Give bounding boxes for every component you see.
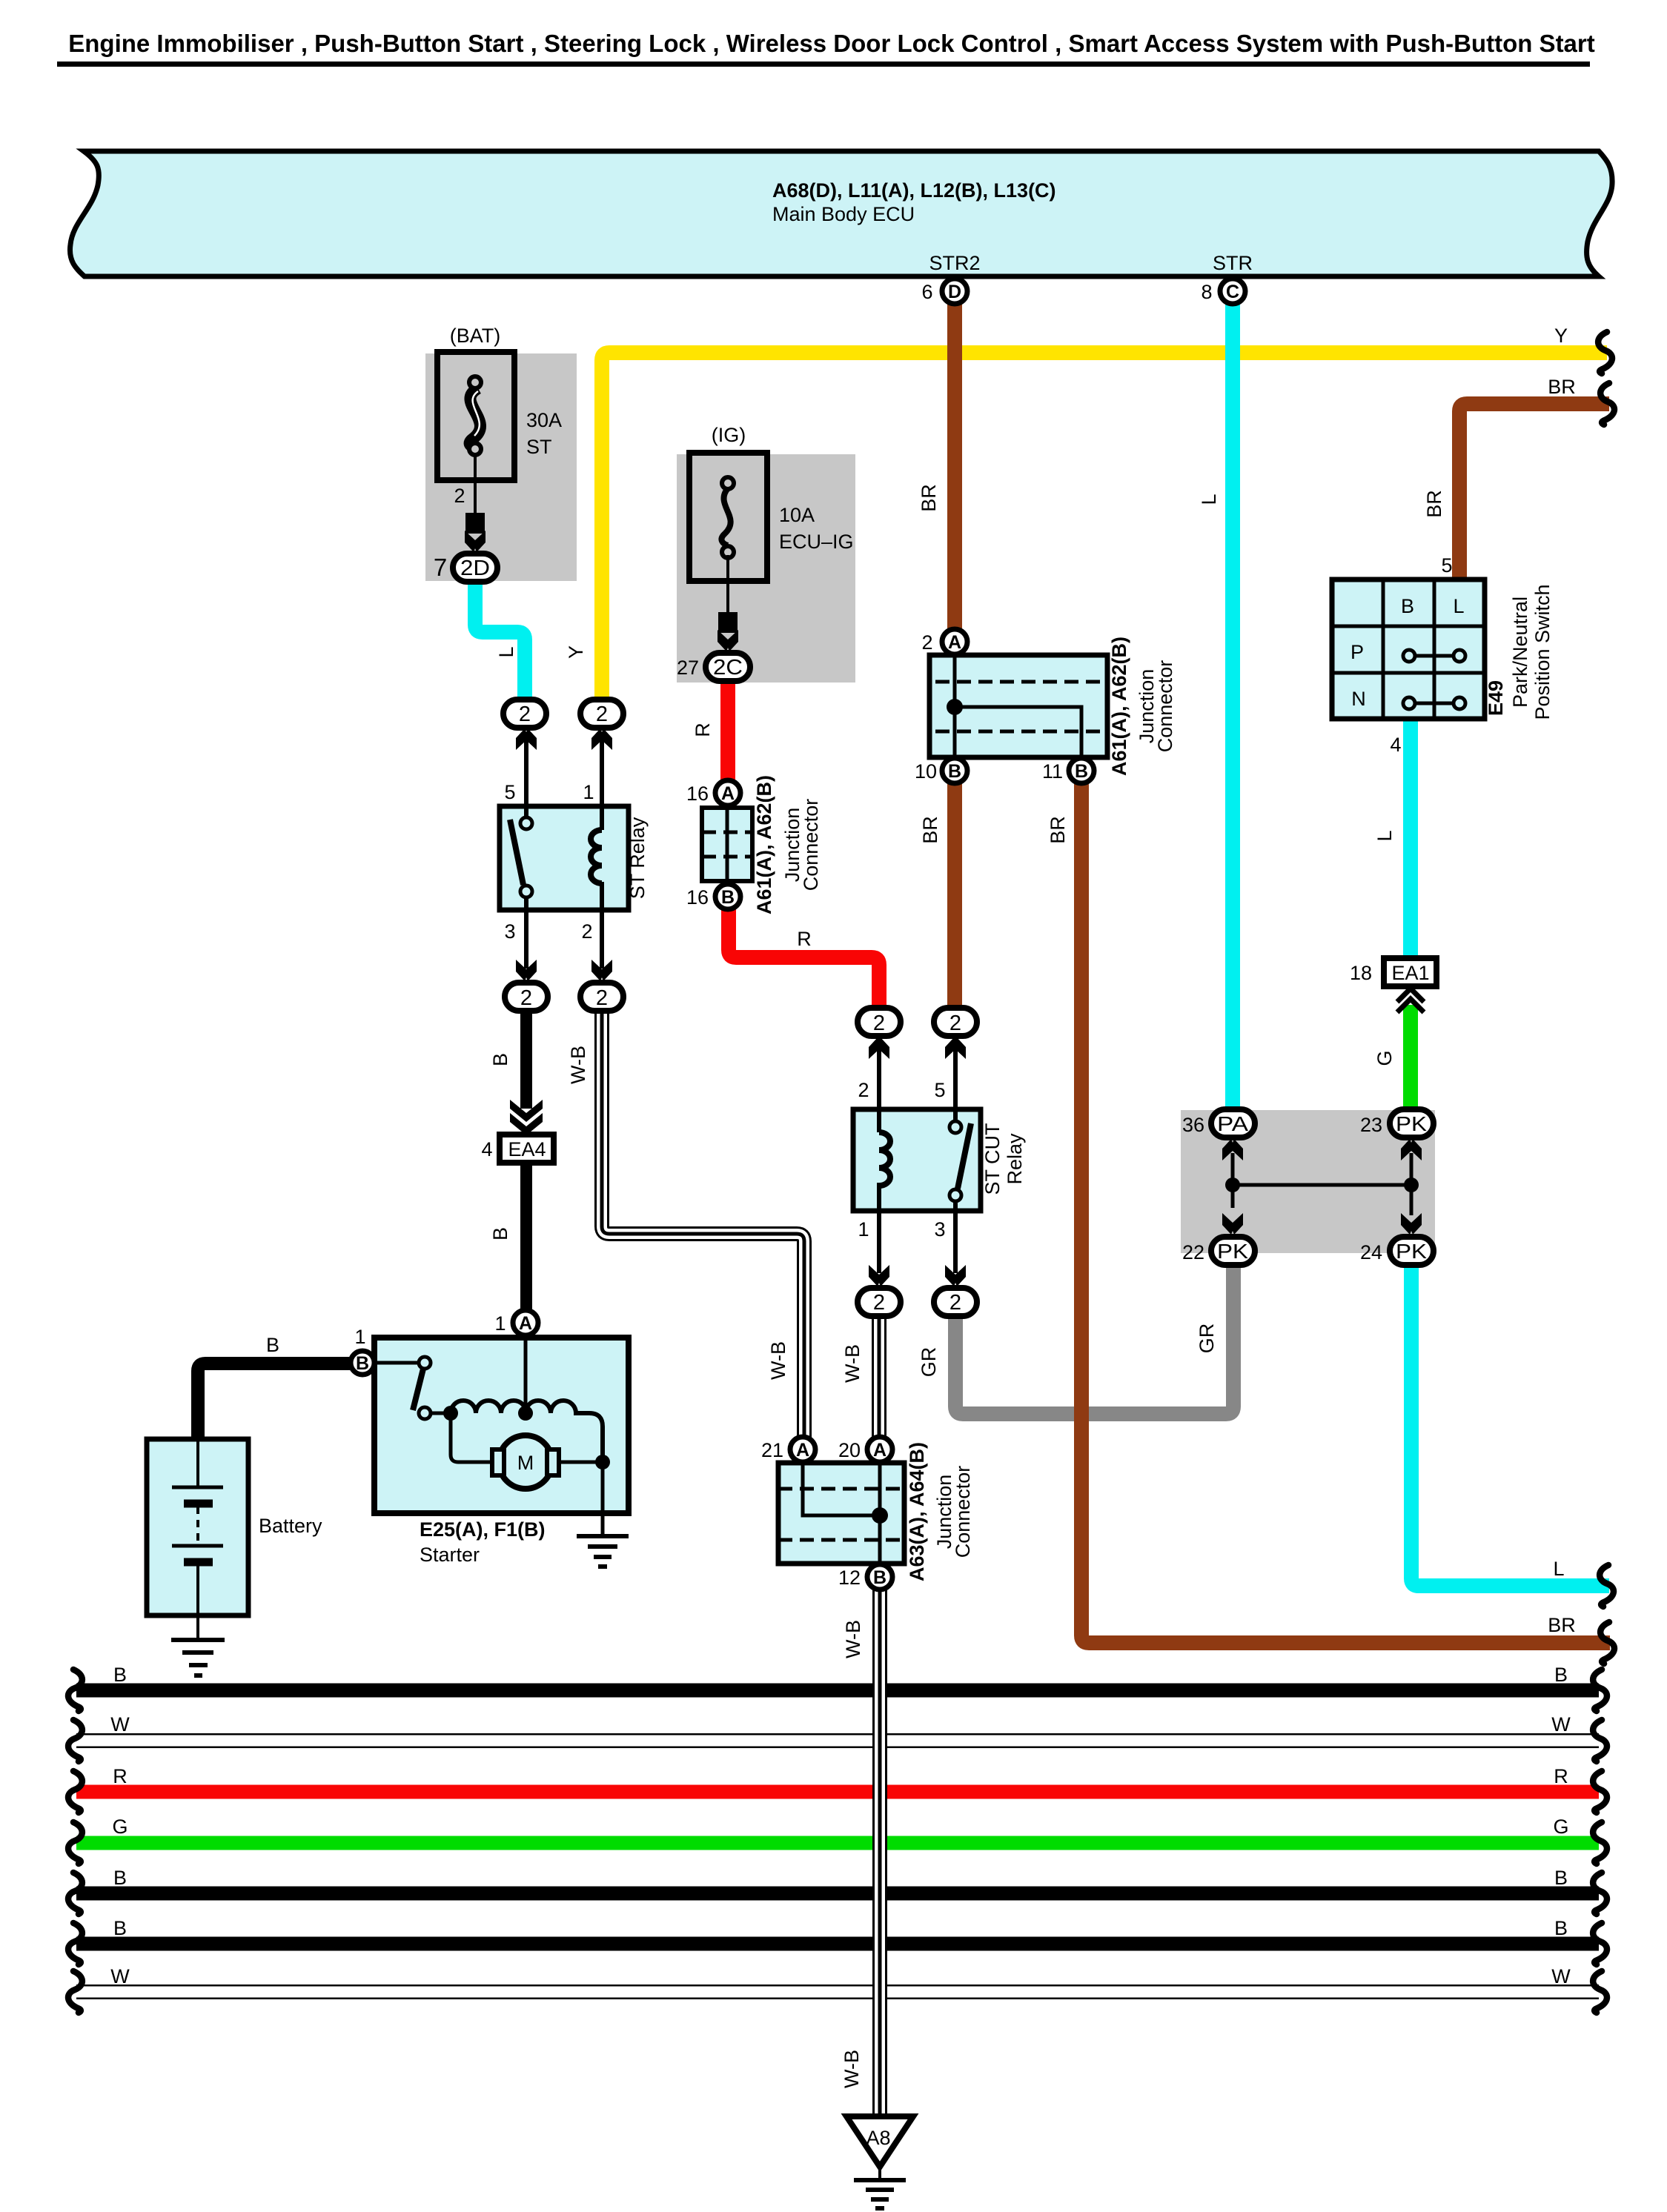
svg-text:PK: PK — [1396, 1240, 1427, 1263]
svg-text:B: B — [489, 1053, 511, 1066]
svg-text:21: 21 — [761, 1439, 783, 1461]
ground splice EA4 — [481, 1100, 554, 1163]
svg-text:BR: BR — [1548, 376, 1576, 398]
svg-text:Starter: Starter — [420, 1544, 480, 1566]
svg-text:W-B: W-B — [841, 1344, 864, 1383]
svg-text:W-B: W-B — [767, 1341, 789, 1380]
svg-text:GR: GR — [918, 1347, 940, 1378]
svg-text:2: 2 — [581, 920, 592, 943]
pin 6 D on ECU — [921, 279, 967, 304]
svg-text:B: B — [113, 1664, 127, 1686]
svg-text:D: D — [948, 282, 961, 302]
wire Y yellow from ECU area to right edge and down to ST relay — [565, 325, 1607, 700]
svg-text:11: 11 — [1042, 760, 1063, 783]
svg-text:4: 4 — [1390, 734, 1401, 756]
svg-text:P: P — [1350, 641, 1364, 663]
pin 12 B junction A63 — [838, 1564, 892, 1590]
pin 1 A on starter — [494, 1310, 538, 1335]
svg-text:W-B: W-B — [841, 2050, 863, 2088]
fuse block shading (IG) — [677, 454, 855, 682]
svg-text:1: 1 — [494, 1312, 506, 1335]
svg-text:5: 5 — [1441, 554, 1452, 577]
wire BR brown from ECU pin D to junction A — [918, 302, 955, 630]
svg-text:E25(A), F1(B): E25(A), F1(B) — [420, 1518, 546, 1541]
connector 2 (ST relay pin 3 bottom) — [505, 983, 548, 1011]
svg-text:PA: PA — [1217, 1112, 1248, 1135]
connector 24 PK — [1360, 1237, 1434, 1265]
pin 20 A junction A63 — [838, 1437, 892, 1462]
pin 1 B on starter — [351, 1326, 374, 1375]
fuse block shading (BAT) — [425, 353, 577, 581]
svg-text:18: 18 — [1350, 962, 1372, 984]
svg-text:2: 2 — [950, 1012, 961, 1035]
svg-text:1: 1 — [858, 1218, 869, 1240]
svg-text:BR: BR — [1548, 1614, 1576, 1636]
junction connector A61(A) A62(B) large — [929, 637, 1176, 776]
svg-text:PK: PK — [1217, 1240, 1248, 1263]
svg-text:EA1: EA1 — [1391, 962, 1429, 984]
wire bus G — [76, 1816, 1599, 1843]
svg-text:2: 2 — [596, 703, 608, 726]
svg-text:B: B — [266, 1334, 279, 1356]
svg-text:A61(A), A62(B): A61(A), A62(B) — [1108, 637, 1130, 776]
fuse 10A ECU-IG (IG) — [677, 424, 854, 679]
wire L cyan from E49 pin 4 to EA1 — [1373, 717, 1411, 960]
junction connector A61(A) A62(B) small — [702, 775, 822, 914]
connector 2 (brown into ST CUT pin 5) — [934, 1008, 977, 1036]
connector block PA/PK internals — [1222, 1139, 1422, 1235]
battery — [147, 1439, 322, 1675]
svg-text:3: 3 — [504, 920, 515, 943]
svg-text:5: 5 — [504, 781, 515, 803]
wire bus R — [76, 1765, 1599, 1792]
connector 7 2D — [434, 554, 497, 582]
svg-text:L: L — [1373, 830, 1396, 841]
svg-text:2D: 2D — [460, 557, 490, 580]
svg-text:B: B — [721, 887, 735, 908]
svg-text:20: 20 — [838, 1439, 861, 1461]
svg-text:B: B — [113, 1917, 127, 1939]
svg-text:Battery: Battery — [259, 1515, 322, 1537]
svg-text:BR: BR — [918, 484, 940, 512]
connector 2 (ST CUT pin 3 bottom) — [934, 1288, 977, 1316]
connector 2 (ST relay pin 2 bottom) — [580, 983, 623, 1011]
svg-text:A: A — [948, 632, 961, 653]
svg-text:Connector: Connector — [1154, 660, 1176, 753]
pin 11 B junction large — [1042, 758, 1094, 783]
wire bus W (bottom) — [76, 1965, 1599, 1992]
connector 2 (red into ST CUT pin 2) — [858, 1008, 901, 1036]
wire G green from EA1 to connector 23 PK — [1373, 1005, 1411, 1112]
svg-text:22: 22 — [1182, 1241, 1204, 1263]
svg-text:23: 23 — [1360, 1114, 1382, 1136]
fuse 30A ST (BAT) — [437, 325, 562, 552]
svg-text:B: B — [1075, 761, 1088, 782]
wire bus B (third) — [76, 1917, 1599, 1944]
svg-text:A61(A), A62(B): A61(A), A62(B) — [753, 775, 775, 914]
svg-text:B: B — [873, 1567, 886, 1588]
svg-text:W: W — [110, 1965, 130, 1987]
svg-text:STR: STR — [1213, 252, 1253, 274]
svg-text:8: 8 — [1201, 281, 1212, 303]
connector 2 (ST CUT pin 1 bottom) — [858, 1288, 901, 1316]
svg-text:27: 27 — [677, 657, 699, 679]
svg-text:L: L — [1553, 1558, 1564, 1580]
svg-text:E49: E49 — [1485, 680, 1507, 716]
wire BR brown from junction 11B to right edge — [1047, 783, 1610, 1643]
svg-text:R: R — [113, 1765, 127, 1787]
title: Engine Immobiliser heading — [57, 30, 1595, 67]
svg-text:Y: Y — [1554, 325, 1568, 347]
svg-text:W: W — [110, 1713, 130, 1736]
wire bus W — [76, 1713, 1599, 1741]
svg-text:30A: 30A — [526, 409, 562, 431]
svg-text:PK: PK — [1396, 1112, 1427, 1135]
pin 21 A junction A63 — [761, 1437, 815, 1462]
svg-text:ST Relay: ST Relay — [626, 817, 649, 899]
connector 23 PK — [1360, 1109, 1434, 1137]
svg-text:M: M — [517, 1452, 534, 1474]
svg-text:10: 10 — [915, 760, 937, 783]
pin 10 B junction large — [915, 758, 967, 783]
svg-text:Park/Neutral: Park/Neutral — [1509, 597, 1531, 708]
svg-text:ST CUT: ST CUT — [981, 1123, 1004, 1195]
svg-text:G: G — [1373, 1050, 1396, 1066]
connector 27 2C — [706, 653, 750, 681]
wire L cyan from fuse 2D to ST relay pin 5 — [475, 577, 525, 700]
Main Body ECU box — [70, 151, 1612, 276]
svg-text:GR: GR — [1196, 1323, 1218, 1354]
relay ST CUT Relay — [853, 1037, 1026, 1286]
svg-text:W: W — [1551, 1713, 1571, 1736]
wire bus B (second) — [76, 1867, 1599, 1893]
svg-text:L: L — [1453, 595, 1464, 617]
svg-text:BR: BR — [1423, 490, 1445, 518]
wire W-B from ST CUT relay pin 1 to junction 20A — [841, 1313, 879, 1438]
wire B black from battery to starter pin B — [198, 1334, 350, 1441]
svg-text:16: 16 — [686, 886, 709, 909]
svg-text:2C: 2C — [713, 656, 743, 680]
svg-text:B: B — [1554, 1867, 1568, 1889]
pin 2 A junction large — [921, 629, 967, 654]
wire R red from fuse 2C to junction 16A — [692, 680, 728, 780]
svg-text:2: 2 — [873, 1012, 885, 1035]
svg-text:A63(A), A64(B): A63(A), A64(B) — [906, 1442, 928, 1581]
svg-text:L: L — [1198, 494, 1220, 505]
svg-text:ECU–IG: ECU–IG — [779, 531, 854, 553]
wire BR brown from right edge to E49 pin 5 — [1423, 376, 1609, 579]
svg-text:4: 4 — [481, 1138, 492, 1160]
wire W-B from junction 12B to ground A8 — [841, 1589, 880, 2118]
svg-text:B: B — [948, 761, 961, 782]
ground A8 — [846, 2116, 913, 2208]
svg-text:R: R — [692, 723, 714, 737]
svg-text:BR: BR — [1047, 816, 1069, 844]
svg-text:2: 2 — [519, 703, 531, 726]
pin 8 C on ECU — [1201, 279, 1245, 304]
svg-text:10A: 10A — [779, 504, 815, 526]
svg-text:6: 6 — [921, 281, 932, 303]
wire W-B from ST relay pin 2 to junction 21A — [567, 1009, 804, 1438]
svg-text:2: 2 — [950, 1291, 961, 1315]
svg-text:ST: ST — [526, 436, 552, 458]
svg-text:W: W — [1551, 1965, 1571, 1987]
svg-text:1: 1 — [354, 1326, 365, 1348]
svg-text:16: 16 — [686, 783, 709, 805]
connector 2 (Y into ST relay pin 1) — [580, 700, 623, 728]
svg-text:7: 7 — [434, 554, 447, 581]
svg-text:2: 2 — [596, 986, 608, 1010]
wire L cyan from ECU pin C to connector PA — [1198, 302, 1233, 1112]
svg-text:B: B — [1554, 1664, 1568, 1686]
svg-text:C: C — [1226, 282, 1239, 302]
svg-text:Connector: Connector — [800, 799, 822, 891]
svg-text:2: 2 — [858, 1079, 869, 1101]
svg-text:B: B — [489, 1227, 511, 1240]
svg-text:1: 1 — [583, 781, 594, 803]
svg-text:A: A — [721, 783, 735, 804]
wire R red from junction 16B to ST CUT relay pin 2 — [729, 909, 879, 1009]
svg-text:G: G — [112, 1816, 127, 1838]
svg-text:36: 36 — [1182, 1114, 1204, 1136]
wire L cyan from connector 24 PK to right edge — [1411, 1262, 1609, 1586]
pin 16 B junction small — [686, 884, 740, 909]
junction connector A63(A) A64(B) — [778, 1442, 974, 1581]
svg-text:(BAT): (BAT) — [450, 325, 501, 347]
svg-text:W-B: W-B — [567, 1046, 589, 1084]
svg-text:A8: A8 — [866, 2127, 890, 2149]
svg-text:5: 5 — [934, 1079, 945, 1101]
connector shading box (PA/PK) — [1181, 1110, 1435, 1253]
pin 16 A junction small — [686, 780, 740, 806]
svg-text:Main Body ECU: Main Body ECU — [772, 203, 915, 225]
svg-text:12: 12 — [838, 1567, 861, 1589]
svg-text:A: A — [873, 1440, 886, 1461]
relay ST Relay — [500, 728, 649, 981]
svg-text:B: B — [113, 1867, 127, 1889]
starter E25(A) F1(B) — [374, 1328, 629, 1567]
svg-text:Y: Y — [565, 645, 587, 659]
connector 2 (L into ST relay pin 5) — [503, 700, 546, 728]
svg-text:24: 24 — [1360, 1241, 1382, 1263]
svg-text:A68(D), L11(A), L12(B), L13(C): A68(D), L11(A), L12(B), L13(C) — [772, 179, 1056, 202]
svg-text:EA4: EA4 — [508, 1138, 546, 1160]
svg-text:A: A — [796, 1440, 809, 1461]
svg-text:Relay: Relay — [1004, 1133, 1026, 1185]
connector 22 PK — [1182, 1237, 1255, 1265]
svg-text:N: N — [1351, 688, 1366, 710]
svg-text:2: 2 — [454, 485, 465, 507]
wire BR brown from junction 10B to ST CUT relay pin 5 — [919, 783, 955, 1009]
connector 36 PA — [1182, 1109, 1255, 1137]
svg-text:2: 2 — [873, 1291, 885, 1315]
svg-text:A: A — [519, 1313, 532, 1334]
svg-text:BR: BR — [919, 816, 941, 844]
svg-text:2: 2 — [520, 986, 532, 1010]
svg-text:3: 3 — [934, 1218, 945, 1240]
svg-text:Connector: Connector — [952, 1466, 974, 1558]
wire end curls — [68, 332, 1614, 2013]
ground splice EA1 — [1350, 958, 1436, 1012]
wire B black from ST relay pin 3 through EA4 to starter pin A — [489, 1009, 526, 1312]
svg-text:R: R — [797, 928, 812, 950]
wire bus B (top) — [76, 1664, 1599, 1690]
svg-text:Engine Immobiliser , Push-Butt: Engine Immobiliser , Push-Button Start ,… — [68, 30, 1595, 57]
svg-text:L: L — [495, 646, 517, 657]
svg-text:STR2: STR2 — [929, 252, 980, 274]
svg-text:(IG): (IG) — [712, 424, 746, 446]
switch E49 Park/Neutral Position Switch — [1332, 579, 1554, 756]
svg-text:B: B — [1401, 595, 1414, 617]
svg-text:G: G — [1553, 1816, 1568, 1838]
svg-text:B: B — [1554, 1917, 1568, 1939]
svg-text:Position Switch: Position Switch — [1531, 584, 1554, 720]
svg-text:W-B: W-B — [842, 1620, 864, 1658]
wire GR gray from ST CUT relay pin 3 to connector 22 PK — [918, 1262, 1233, 1414]
svg-text:2: 2 — [921, 631, 932, 654]
svg-text:B: B — [356, 1353, 369, 1374]
svg-text:R: R — [1554, 1765, 1568, 1787]
